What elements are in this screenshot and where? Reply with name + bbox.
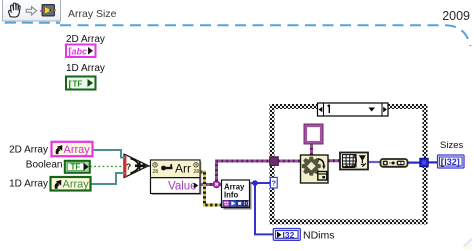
svg-text:2D Array: 2D Array [66, 34, 105, 45]
svg-text:Value: Value [168, 180, 197, 192]
svg-text:Array: Array [63, 179, 90, 191]
svg-text:2009: 2009 [442, 9, 470, 23]
svg-text:Array: Array [64, 144, 91, 156]
svg-text:Arr: Arr [175, 162, 191, 176]
svg-text:1D Array: 1D Array [9, 178, 48, 189]
svg-text:abc: abc [72, 46, 88, 56]
svg-text:TF: TF [71, 163, 81, 172]
svg-text:?: ? [272, 179, 277, 188]
svg-text:2D Array: 2D Array [9, 144, 48, 155]
svg-text:28: 28 [153, 169, 159, 175]
svg-text:NDims: NDims [303, 229, 335, 241]
svg-text:?: ? [126, 162, 131, 172]
svg-text:Sizes: Sizes [440, 140, 463, 151]
svg-text:TF: TF [73, 80, 83, 89]
svg-text:28: 28 [194, 169, 200, 175]
svg-text:1D Array: 1D Array [66, 63, 105, 74]
svg-text:Boolean: Boolean [26, 160, 63, 171]
svg-text:Info: Info [224, 191, 239, 200]
svg-text:I32: I32 [283, 230, 295, 240]
svg-text:Array Size: Array Size [68, 8, 117, 20]
svg-text:I32]: I32] [444, 157, 460, 167]
